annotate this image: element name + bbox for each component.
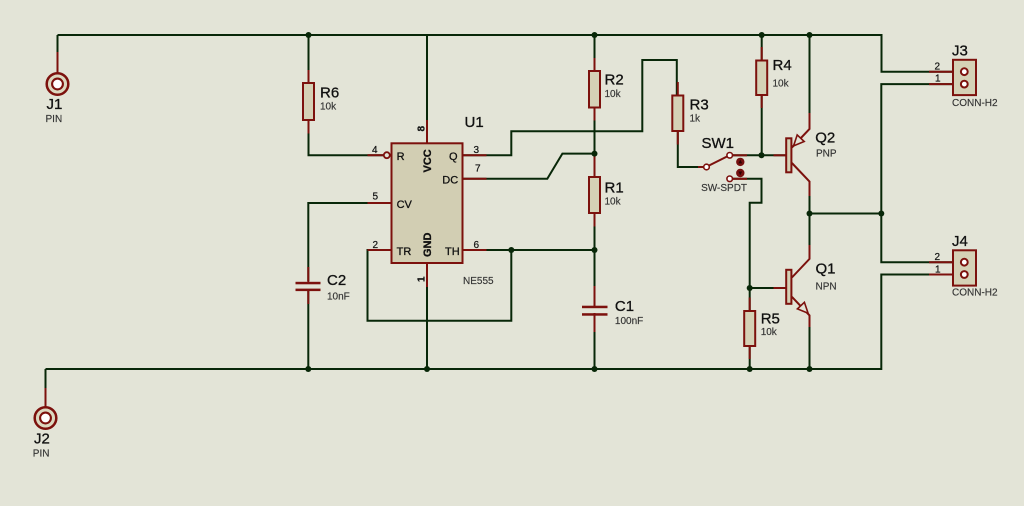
pin stub switch throw2 xyxy=(733,178,748,180)
wire Q1 base xyxy=(750,287,786,289)
junction J column node xyxy=(878,211,884,217)
junction Q2 emitter top rail xyxy=(807,32,813,38)
pin 1 stub U1 xyxy=(426,262,428,287)
svg-text:TR: TR xyxy=(397,246,412,258)
connector J3 xyxy=(935,43,998,109)
svg-text:R5: R5 xyxy=(761,311,780,328)
pin stub R3 top xyxy=(677,82,679,96)
wire R1 column to C1 top xyxy=(594,213,596,305)
svg-text:DC: DC xyxy=(442,174,458,186)
pin Q1 collector xyxy=(792,245,810,278)
pin 4 stub U1 xyxy=(368,154,384,156)
wire J3 pin1 column xyxy=(881,84,953,213)
svg-text:TH: TH xyxy=(445,246,460,258)
pin Q2 collector xyxy=(792,163,810,196)
wire J2 stub xyxy=(45,369,47,407)
junction R6 top rail xyxy=(306,32,312,38)
pin 4 inversion bubble xyxy=(384,152,390,158)
pin 7 stub U1 xyxy=(463,178,487,180)
svg-text:C2: C2 xyxy=(327,272,346,289)
pin stub R3 bottom xyxy=(677,131,679,145)
svg-text:Q2: Q2 xyxy=(815,130,835,147)
wire R2 column xyxy=(594,35,596,177)
transistor Q2 PNP xyxy=(786,130,837,173)
svg-text:CONN-H2: CONN-H2 xyxy=(952,288,998,299)
lead C1 bottom xyxy=(594,313,596,332)
svg-text:10k: 10k xyxy=(320,102,337,113)
svg-text:Q: Q xyxy=(449,151,458,163)
svg-text:5: 5 xyxy=(373,192,379,203)
svg-text:J1: J1 xyxy=(47,96,63,113)
pin 2 stub U1 xyxy=(368,249,392,251)
switch actuator dot down xyxy=(736,169,744,177)
resistor R4 xyxy=(756,57,791,95)
svg-text:SW-SPDT: SW-SPDT xyxy=(701,183,747,194)
pin Q2 emitter xyxy=(792,113,810,148)
connector J1 xyxy=(46,73,69,125)
pin 6 stub U1 xyxy=(463,249,487,251)
wire pin1 GND to rail xyxy=(426,263,428,369)
Q2 emitter arrow xyxy=(794,135,805,146)
pin stub J2 xyxy=(45,388,47,407)
svg-text:J3: J3 xyxy=(952,43,968,60)
svg-text:7: 7 xyxy=(475,163,481,174)
pin stub R5 top xyxy=(749,298,751,312)
svg-text:6: 6 xyxy=(474,240,480,251)
resistor R1 xyxy=(589,177,624,213)
pin stub Q2 base xyxy=(774,154,786,156)
svg-text:CV: CV xyxy=(397,199,413,211)
svg-text:8: 8 xyxy=(417,126,428,132)
pin stub R4 top xyxy=(761,47,763,61)
wire Q2 emitter to rail xyxy=(809,35,811,129)
svg-text:U1: U1 xyxy=(465,114,484,131)
switch lever xyxy=(709,156,728,165)
wire R3 bottom to switch pole xyxy=(678,131,704,167)
pin stub J3 pin2 xyxy=(929,71,953,73)
svg-text:R6: R6 xyxy=(320,85,339,102)
svg-text:J2: J2 xyxy=(34,431,50,448)
svg-text:PIN: PIN xyxy=(46,114,63,125)
svg-text:10k: 10k xyxy=(605,197,622,208)
svg-text:1k: 1k xyxy=(690,114,702,125)
pin stub J4 pin2 xyxy=(929,261,953,263)
wire DC pin7 diagonal xyxy=(463,154,595,179)
wire J1 stub xyxy=(57,35,59,73)
pin stub switch pole xyxy=(698,166,704,168)
junction TH-R1-C1 node xyxy=(592,247,598,253)
svg-text:1: 1 xyxy=(935,264,941,275)
wire C1 bottom to ground rail xyxy=(594,314,596,369)
resistor R2 xyxy=(589,71,624,108)
svg-text:J4: J4 xyxy=(952,233,968,250)
junction GND pin ground rail xyxy=(424,366,430,372)
wire J4 pin2 xyxy=(881,214,953,263)
junction R5 ground rail xyxy=(747,366,753,372)
Q1 emitter arrow xyxy=(797,302,808,313)
pin stub R4 bottom xyxy=(761,95,763,109)
wire CV pin5 branch xyxy=(308,203,391,281)
svg-text:NPN: NPN xyxy=(816,281,837,292)
switch pole contact xyxy=(704,164,710,170)
capacitor C2 xyxy=(296,272,350,303)
lead C1 top xyxy=(594,286,596,306)
capacitor C1 xyxy=(582,298,643,327)
svg-text:3: 3 xyxy=(474,145,480,156)
op-amp U1 NE555 body xyxy=(372,114,494,287)
svg-text:GND: GND xyxy=(422,233,434,258)
resistor R6 xyxy=(303,83,339,120)
pin stub R1 top xyxy=(594,156,596,177)
wire R6 branch to pin4 xyxy=(309,35,384,155)
svg-text:R3: R3 xyxy=(690,97,709,114)
pin 3 stub U1 xyxy=(463,154,487,156)
junction R4 top rail xyxy=(759,32,765,38)
pin stub R6 bottom xyxy=(308,120,310,134)
pin stub switch throw1 xyxy=(733,154,748,156)
svg-text:R1: R1 xyxy=(605,180,624,197)
svg-text:1: 1 xyxy=(935,74,941,85)
pin stub R2 top xyxy=(594,58,596,71)
wire collector column Q2-Q1 xyxy=(809,182,811,259)
pin stub J1 xyxy=(57,52,59,72)
svg-text:4: 4 xyxy=(372,145,378,156)
junction Q1 base node xyxy=(747,285,753,291)
switch SW1 SW-SPDT xyxy=(701,135,747,194)
wire collector node to J column xyxy=(810,213,882,215)
svg-text:2: 2 xyxy=(373,240,379,251)
pin stub R5 bottom xyxy=(749,346,751,360)
lead C2 top xyxy=(307,267,309,282)
wire switch throw1 to Q2 base xyxy=(733,154,786,156)
wire VCC top rail to J3 pin2 xyxy=(58,35,954,72)
svg-text:VCC: VCC xyxy=(422,149,434,172)
svg-text:100nF: 100nF xyxy=(615,316,643,327)
resistor R3 xyxy=(672,96,708,132)
junction collector node xyxy=(807,211,813,217)
connector J2 xyxy=(33,407,57,459)
svg-text:SW1: SW1 xyxy=(702,135,735,152)
switch throw2 contact xyxy=(727,176,733,182)
svg-text:R4: R4 xyxy=(773,57,792,74)
svg-text:R2: R2 xyxy=(605,72,624,89)
svg-text:R: R xyxy=(397,151,405,163)
junction C1 ground rail xyxy=(592,366,598,372)
svg-text:CONN-H2: CONN-H2 xyxy=(952,98,998,109)
svg-text:PIN: PIN xyxy=(33,449,50,460)
pin stub J3 pin1 xyxy=(929,83,953,85)
resistor R5 xyxy=(744,311,780,347)
svg-text:Q1: Q1 xyxy=(816,261,836,278)
lead C2 bottom xyxy=(307,289,309,304)
pin 5 stub U1 xyxy=(368,202,392,204)
switch throw1 contact xyxy=(727,153,733,159)
svg-text:10nF: 10nF xyxy=(327,292,350,303)
junction Q1 emitter ground rail xyxy=(807,366,813,372)
wire Q1 emitter to rail xyxy=(809,315,811,369)
pin stub J4 pin1 xyxy=(929,274,953,276)
wire R4 column xyxy=(761,35,763,155)
pin stub Q1 base xyxy=(774,287,786,289)
wire pin8 VCC xyxy=(426,35,428,143)
svg-text:2: 2 xyxy=(935,61,941,72)
svg-text:10k: 10k xyxy=(761,327,778,338)
junction TR-TH node xyxy=(508,247,514,253)
wire TR loop pin2 to TH node xyxy=(368,250,512,321)
wire TH pin6 xyxy=(463,249,595,251)
svg-text:10k: 10k xyxy=(605,89,622,100)
pin Q1 emitter xyxy=(792,297,810,327)
wire ground bottom rail to J4 pin1 xyxy=(46,275,954,370)
junction DC node xyxy=(592,151,598,157)
svg-text:PNP: PNP xyxy=(816,148,837,159)
wire R5 column xyxy=(749,288,751,369)
transistor Q1 NPN xyxy=(786,261,836,314)
pin 8 stub U1 xyxy=(426,120,428,144)
wire Q pin3 to R3 top xyxy=(463,60,677,155)
svg-text:1: 1 xyxy=(417,276,428,282)
svg-text:10k: 10k xyxy=(773,79,790,90)
wire switch throw2 jog to Q1 base node xyxy=(733,179,762,288)
junction switch throw1 node xyxy=(759,152,765,158)
svg-text:NE555: NE555 xyxy=(463,276,494,287)
junction R2 top rail xyxy=(592,32,598,38)
junction C2 ground rail xyxy=(305,366,311,372)
pin stub R1 bottom xyxy=(594,213,596,227)
pin stub R2 bottom xyxy=(594,108,596,121)
wire C2 bottom to rail xyxy=(307,290,309,369)
switch actuator dot up xyxy=(736,158,744,166)
pin stub R6 top xyxy=(308,70,310,84)
connector J4 xyxy=(935,233,998,299)
svg-text:C1: C1 xyxy=(615,298,634,315)
svg-text:2: 2 xyxy=(935,252,941,263)
